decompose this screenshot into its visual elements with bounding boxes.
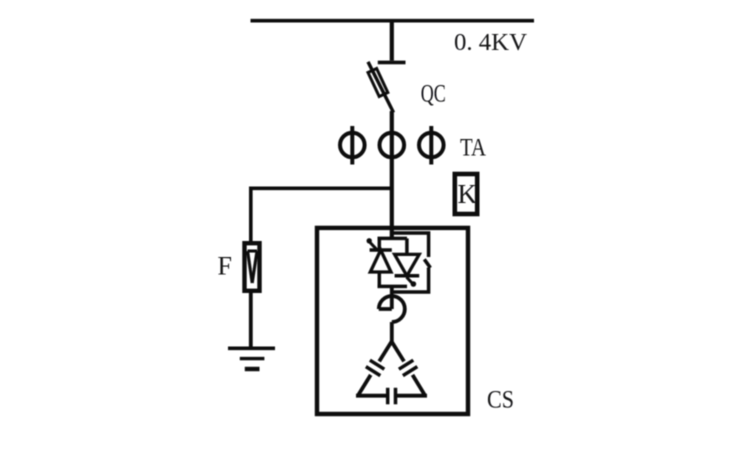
capacitor delta left side xyxy=(358,342,392,396)
switch QC fixed contact xyxy=(378,61,406,65)
bypass switch blade xyxy=(424,259,430,268)
thyristor V1 gate xyxy=(367,238,378,250)
wire left branch vertical xyxy=(249,187,253,242)
CS enclosure box xyxy=(317,228,468,414)
svg-text:CS: CS xyxy=(487,387,514,414)
wire right valve branch upper xyxy=(405,238,409,254)
svg-text:TA: TA xyxy=(460,133,486,162)
wire reactor to capacitor bank xyxy=(390,322,394,343)
fuse body QC xyxy=(368,68,388,96)
wire bus drop xyxy=(390,19,394,61)
capacitor C2 plates xyxy=(399,360,417,375)
svg-text:0. 4KV: 0. 4KV xyxy=(454,30,528,56)
arrester F body xyxy=(245,243,260,291)
wire arrester to ground xyxy=(249,293,253,349)
arrester F arrow xyxy=(248,251,257,283)
reactor L radius lead xyxy=(379,307,392,311)
wire main vertical xyxy=(390,111,394,239)
svg-text:F: F xyxy=(218,252,232,281)
capacitor delta bottom side xyxy=(356,394,427,398)
thyristor V2 gate xyxy=(407,277,417,287)
CT TA phase-2 circle xyxy=(380,133,405,158)
CT TA phase-3 circle xyxy=(419,126,444,165)
switch QC blade xyxy=(368,62,394,113)
wire left branch horizontal xyxy=(249,187,392,191)
thyristor pair bottom tie wire xyxy=(378,285,408,289)
wire left valve branch lower xyxy=(378,272,382,286)
ground xyxy=(228,348,275,369)
thyristor V2 triangle xyxy=(395,254,420,275)
svg-text:QC: QC xyxy=(421,79,446,108)
capacitor C3 plates xyxy=(388,388,396,405)
relay K box xyxy=(455,174,477,214)
wire valve to reactor xyxy=(390,286,394,309)
capacitor C1 plates xyxy=(366,360,384,375)
busbar 0.4KV xyxy=(251,19,535,23)
reactor L arc xyxy=(379,296,405,322)
svg-text:K: K xyxy=(458,179,478,209)
thyristor V2 cathode bar xyxy=(395,274,420,278)
capacitor delta right side xyxy=(392,342,426,396)
thyristor V1 triangle xyxy=(370,250,391,272)
bypass wire upper xyxy=(392,233,429,257)
thyristor V1 cathode bar xyxy=(370,248,392,252)
thyristor pair top tie wire xyxy=(378,237,408,241)
bypass wire lower xyxy=(392,268,429,293)
CT TA phase-1 circle xyxy=(340,126,365,165)
wire left valve branch upper xyxy=(378,238,382,250)
